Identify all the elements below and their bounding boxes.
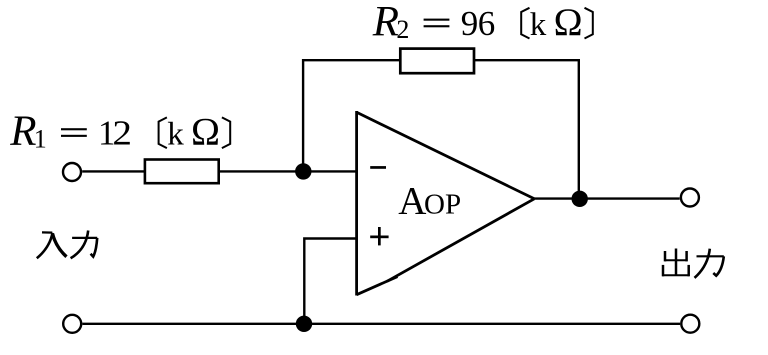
node bottom junction dot [296, 316, 312, 332]
svg-text:Ω: Ω [554, 1, 583, 44]
op-amp label AOP [398, 179, 461, 222]
op-amp minus input symbol [370, 166, 386, 169]
terminal input bottom [63, 315, 81, 333]
wire input horizontal [82, 170, 356, 172]
svg-text:A: A [398, 179, 426, 222]
label nyuryoku (input) kanji [37, 231, 97, 259]
wire bottom rail [82, 323, 680, 325]
label R2 value [372, 0, 593, 46]
svg-text:1: 1 [34, 125, 47, 154]
svg-text:k: k [530, 7, 547, 43]
node input junction dot [295, 163, 311, 179]
svg-text:R: R [9, 108, 36, 155]
op-amp U1 [357, 111, 535, 296]
resistor R1 [145, 160, 219, 184]
terminal input top [63, 163, 81, 181]
wire plus input (horizontal + vertical down to bottom rail) [304, 239, 356, 324]
resistor R2 [400, 49, 474, 74]
wire output horizontal [534, 197, 679, 199]
wire feedback loop (left vertical + top horizontal + right vertical) [303, 60, 579, 199]
svg-text:6: 6 [478, 4, 496, 43]
svg-text:k: k [167, 117, 184, 153]
label shutsuryoku (output) kanji [662, 249, 724, 278]
terminal output top [681, 189, 699, 207]
svg-text:R: R [372, 0, 399, 46]
svg-text:9: 9 [461, 4, 479, 43]
label R1 value [9, 108, 230, 155]
svg-text:2: 2 [112, 115, 132, 154]
svg-text:2: 2 [396, 15, 409, 44]
svg-text:OP: OP [424, 188, 461, 220]
node output junction dot [572, 191, 588, 207]
op-amp plus input symbol [370, 227, 388, 245]
terminal output bottom [681, 315, 699, 333]
svg-text:Ω: Ω [191, 111, 220, 154]
